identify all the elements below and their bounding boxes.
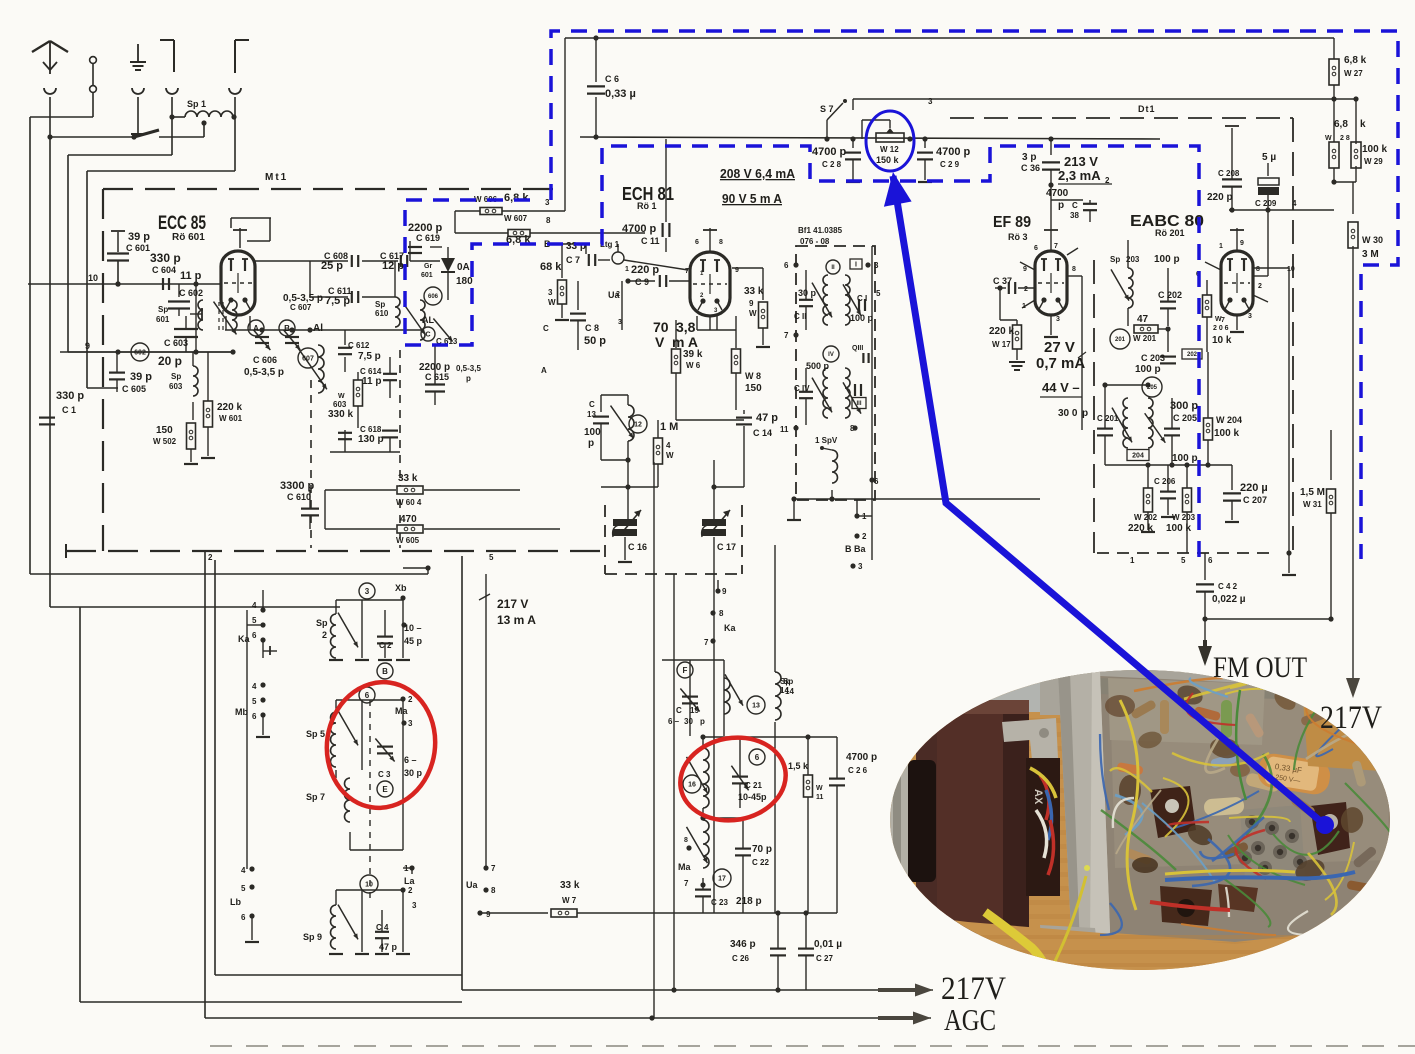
svg-text:4: 4 <box>241 866 246 875</box>
svg-text:6: 6 <box>784 261 789 270</box>
svg-text:150 k: 150 k <box>876 155 900 165</box>
svg-text:Sp: Sp <box>375 300 385 309</box>
svg-text:C 2 6: C 2 6 <box>848 766 868 775</box>
svg-text:220 k: 220 k <box>989 326 1014 337</box>
svg-text:601: 601 <box>156 315 170 324</box>
svg-text:C 6: C 6 <box>605 74 619 84</box>
svg-text:C 2 9: C 2 9 <box>940 160 960 169</box>
svg-text:Sp 1: Sp 1 <box>187 99 206 109</box>
svg-text:Xb: Xb <box>395 583 407 593</box>
svg-text:p: p <box>700 717 705 726</box>
svg-text:130 p: 130 p <box>358 434 384 445</box>
svg-text:500 p: 500 p <box>806 361 830 371</box>
svg-text:W 27: W 27 <box>1344 69 1363 78</box>
svg-text:5: 5 <box>1181 556 1186 565</box>
svg-text:204: 204 <box>1132 453 1144 460</box>
svg-text:0,5-3,5 p: 0,5-3,5 p <box>244 367 284 378</box>
svg-text:W 7: W 7 <box>562 896 577 905</box>
svg-text:Sp: Sp <box>316 618 328 628</box>
svg-text:Lb: Lb <box>230 897 241 907</box>
svg-text:220 p: 220 p <box>1207 192 1233 203</box>
svg-text:603: 603 <box>333 400 347 409</box>
svg-text:3 p: 3 p <box>1022 152 1036 163</box>
svg-text:6: 6 <box>252 631 257 640</box>
svg-text:Gr: Gr <box>424 263 432 270</box>
svg-text:16: 16 <box>688 782 696 789</box>
svg-text:IV: IV <box>828 352 834 358</box>
svg-text:C 619: C 619 <box>416 233 440 243</box>
svg-text:0,022 µ: 0,022 µ <box>1212 594 1246 605</box>
svg-text:F: F <box>683 666 688 675</box>
svg-text:100 k: 100 k <box>1362 144 1387 155</box>
svg-text:C 7: C 7 <box>566 255 580 265</box>
svg-text:13: 13 <box>752 703 760 710</box>
svg-text:100 p: 100 p <box>1172 453 1198 464</box>
svg-text:1: 1 <box>1219 243 1223 250</box>
svg-text:220 p: 220 p <box>631 264 659 276</box>
svg-text:6 –: 6 – <box>668 717 680 726</box>
svg-text:W 6: W 6 <box>686 361 701 370</box>
svg-text:W 8: W 8 <box>745 371 761 381</box>
svg-text:076 - 08: 076 - 08 <box>800 237 830 246</box>
svg-text:p: p <box>466 374 471 383</box>
svg-text:La: La <box>404 876 415 886</box>
svg-text:C 606: C 606 <box>253 355 277 365</box>
svg-text:3300 p: 3300 p <box>280 480 315 492</box>
svg-text:W 607: W 607 <box>504 214 528 223</box>
svg-text:3: 3 <box>1248 313 1252 320</box>
svg-text:3: 3 <box>928 97 933 106</box>
svg-text:C 202: C 202 <box>1158 290 1182 300</box>
svg-text:100 k: 100 k <box>1166 523 1191 534</box>
svg-text:1 SpV: 1 SpV <box>815 436 838 445</box>
svg-text:C 11: C 11 <box>641 236 660 246</box>
svg-text:17: 17 <box>718 876 726 883</box>
svg-text:I: I <box>855 262 857 269</box>
svg-text:W 60 4: W 60 4 <box>396 498 422 507</box>
svg-text:C 23: C 23 <box>711 898 728 907</box>
svg-text:C: C <box>543 324 549 333</box>
svg-text:218 p: 218 p <box>736 896 762 907</box>
svg-text:Ka: Ka <box>238 634 250 644</box>
svg-text:3: 3 <box>874 261 879 270</box>
svg-text:C 22: C 22 <box>752 858 769 867</box>
svg-text:4700 p: 4700 p <box>622 223 657 235</box>
svg-text:3: 3 <box>618 319 622 326</box>
svg-text:217V: 217V <box>1320 700 1382 736</box>
svg-text:C II: C II <box>794 312 806 321</box>
svg-text:C 14: C 14 <box>753 428 772 438</box>
svg-text:Dt1: Dt1 <box>1138 104 1156 114</box>
svg-text:B: B <box>284 324 290 333</box>
svg-text:6: 6 <box>755 753 760 762</box>
svg-text:5: 5 <box>241 884 246 893</box>
svg-text:C 605: C 605 <box>122 384 146 394</box>
svg-text:50 p: 50 p <box>584 335 606 347</box>
svg-text:5: 5 <box>252 697 257 706</box>
svg-text:Ua: Ua <box>466 880 478 890</box>
svg-text:346 p: 346 p <box>730 939 756 950</box>
svg-text:3: 3 <box>858 562 863 571</box>
svg-text:30 0: 30 0 <box>1058 408 1078 419</box>
svg-text:C 602: C 602 <box>179 288 203 298</box>
svg-text:W 601: W 601 <box>219 414 243 423</box>
svg-text:6,8: 6,8 <box>1334 119 1348 130</box>
svg-text:3: 3 <box>408 719 413 728</box>
svg-text:V: V <box>655 334 665 350</box>
svg-text:4700 p: 4700 p <box>846 752 877 763</box>
svg-text:6: 6 <box>695 239 699 246</box>
svg-text:C 4: C 4 <box>376 923 389 932</box>
svg-text:5: 5 <box>876 289 881 298</box>
svg-text:601: 601 <box>421 272 433 279</box>
svg-text:3: 3 <box>365 587 370 596</box>
svg-text:2,3 mA: 2,3 mA <box>1058 168 1101 183</box>
svg-text:68 k: 68 k <box>540 261 562 273</box>
svg-text:ECC 85: ECC 85 <box>158 213 206 234</box>
svg-text:44 V –: 44 V – <box>1042 380 1080 395</box>
svg-text:2: 2 <box>208 553 213 562</box>
svg-text:38: 38 <box>1070 211 1079 220</box>
svg-text:0,5-3,5: 0,5-3,5 <box>456 364 481 373</box>
svg-text:1: 1 <box>1022 303 1026 310</box>
svg-text:7: 7 <box>685 268 689 275</box>
svg-text:3 M: 3 M <box>1362 249 1379 260</box>
svg-text:C 9: C 9 <box>635 277 649 287</box>
svg-text:2: 2 <box>862 532 867 541</box>
svg-text:p: p <box>1082 408 1088 419</box>
svg-text:220 k: 220 k <box>217 402 242 413</box>
svg-text:p: p <box>1058 200 1064 211</box>
svg-text:W 202: W 202 <box>1134 513 1158 522</box>
svg-text:20 p: 20 p <box>158 354 182 368</box>
svg-text:4700: 4700 <box>1046 188 1069 199</box>
svg-text:C 205: C 205 <box>1173 413 1197 423</box>
svg-text:C 614: C 614 <box>360 367 382 376</box>
svg-text:330 p: 330 p <box>150 251 181 265</box>
svg-text:E: E <box>382 785 388 794</box>
svg-text:7: 7 <box>1221 317 1225 324</box>
svg-text:C 612: C 612 <box>348 341 370 350</box>
svg-text:W: W <box>749 309 757 318</box>
svg-text:EF 89: EF 89 <box>993 214 1031 231</box>
svg-text:3,8: 3,8 <box>676 319 696 335</box>
svg-text:W 17: W 17 <box>992 340 1011 349</box>
svg-text:607: 607 <box>302 356 314 363</box>
svg-text:220 µ: 220 µ <box>1240 482 1268 494</box>
svg-text:2: 2 <box>1024 286 1028 293</box>
svg-text:220 k: 220 k <box>1128 523 1153 534</box>
svg-text:10 –: 10 – <box>404 623 422 633</box>
svg-text:2: 2 <box>1258 283 1262 290</box>
svg-text:8: 8 <box>1072 266 1076 273</box>
svg-text:A: A <box>253 324 259 333</box>
svg-text:9: 9 <box>486 910 491 919</box>
svg-text:C 2: C 2 <box>379 641 392 650</box>
svg-text:4700 p: 4700 p <box>936 146 971 158</box>
svg-text:9: 9 <box>1023 266 1027 273</box>
svg-text:100 p: 100 p <box>850 313 874 323</box>
svg-text:100 p: 100 p <box>1154 254 1180 265</box>
svg-text:C 16: C 16 <box>628 542 647 552</box>
svg-text:7: 7 <box>704 638 709 647</box>
svg-text:47: 47 <box>1137 314 1149 325</box>
svg-text:100: 100 <box>584 427 601 438</box>
svg-text:C 603: C 603 <box>164 338 188 348</box>
svg-text:k: k <box>1360 119 1366 130</box>
svg-text:m A: m A <box>672 334 698 350</box>
svg-text:C 607: C 607 <box>290 303 312 312</box>
svg-text:5: 5 <box>252 616 257 625</box>
svg-text:C 3: C 3 <box>378 770 391 779</box>
svg-text:33 k: 33 k <box>744 286 764 297</box>
svg-text:7: 7 <box>684 879 689 888</box>
svg-text:6: 6 <box>874 477 879 486</box>
svg-text:Ka: Ka <box>724 623 736 633</box>
svg-text:213 V: 213 V <box>1064 154 1098 169</box>
svg-text:II: II <box>831 265 835 271</box>
svg-text:470: 470 <box>400 514 417 525</box>
svg-text:1,5 M: 1,5 M <box>1300 487 1325 498</box>
svg-text:C 26: C 26 <box>732 954 749 963</box>
svg-text:0,01 µ: 0,01 µ <box>814 939 842 950</box>
svg-text:1 M: 1 M <box>660 421 678 433</box>
svg-text:4: 4 <box>252 601 257 610</box>
svg-text:6: 6 <box>365 691 370 700</box>
svg-text:W 502: W 502 <box>153 437 177 446</box>
svg-text:C: C <box>1072 201 1078 210</box>
svg-text:III: III <box>856 401 861 407</box>
svg-text:W 201: W 201 <box>1133 334 1157 343</box>
svg-text:100 k: 100 k <box>1214 428 1239 439</box>
svg-text:W 203: W 203 <box>1172 513 1196 522</box>
svg-text:150: 150 <box>745 383 762 394</box>
svg-text:C 615: C 615 <box>425 372 449 382</box>
svg-text:205: 205 <box>1147 385 1158 391</box>
svg-text:C: C <box>425 332 430 339</box>
svg-text:2: 2 <box>616 291 620 298</box>
svg-text:39 p: 39 p <box>128 231 150 243</box>
svg-text:70: 70 <box>653 319 669 335</box>
svg-text:30 p: 30 p <box>798 288 817 298</box>
svg-text:4: 4 <box>252 682 257 691</box>
svg-text:70 p: 70 p <box>752 844 772 855</box>
svg-text:A: A <box>541 366 547 375</box>
svg-text:C 4 2: C 4 2 <box>1218 582 1238 591</box>
svg-text:6: 6 <box>241 913 246 922</box>
svg-text:W 30: W 30 <box>1362 235 1383 245</box>
svg-text:30: 30 <box>684 717 693 726</box>
svg-text:C I: C I <box>857 294 867 303</box>
svg-text:W: W <box>666 451 674 460</box>
svg-text:10: 10 <box>365 882 373 889</box>
svg-text:C 207: C 207 <box>1243 495 1267 505</box>
svg-text:AX: AX <box>1032 789 1044 805</box>
svg-text:C 2 8: C 2 8 <box>822 160 842 169</box>
svg-text:202: 202 <box>1187 352 1198 358</box>
svg-text:S 7: S 7 <box>820 104 834 114</box>
svg-text:W 29: W 29 <box>1364 157 1383 166</box>
svg-text:W: W <box>548 298 556 307</box>
svg-text:10: 10 <box>88 273 98 283</box>
svg-text:W: W <box>816 785 823 792</box>
svg-text:C: C <box>676 706 682 715</box>
svg-text:Al: Al <box>313 323 323 334</box>
svg-text:0A: 0A <box>457 262 470 273</box>
svg-text:6,8 k: 6,8 k <box>504 192 529 204</box>
svg-text:Sp: Sp <box>783 677 793 686</box>
svg-text:12: 12 <box>634 422 642 429</box>
svg-text:8: 8 <box>1256 266 1260 273</box>
svg-text:27 V: 27 V <box>1044 339 1075 356</box>
svg-text:C 1: C 1 <box>62 405 76 415</box>
svg-text:Sp 7: Sp 7 <box>306 792 325 802</box>
svg-text:Rö 601: Rö 601 <box>172 232 205 243</box>
svg-text:0,33 µ: 0,33 µ <box>605 88 636 100</box>
svg-text:3: 3 <box>1056 316 1060 323</box>
svg-text:2: 2 <box>322 630 327 640</box>
svg-text:11: 11 <box>780 425 789 434</box>
svg-text:6 –: 6 – <box>404 755 417 765</box>
svg-text:10-45p: 10-45p <box>738 792 767 802</box>
svg-text:201: 201 <box>1115 337 1126 343</box>
svg-text:C 201: C 201 <box>1097 414 1119 423</box>
svg-text:45 p: 45 p <box>404 636 423 646</box>
svg-text:C 8: C 8 <box>585 323 599 333</box>
svg-text:2 0 6: 2 0 6 <box>1213 325 1229 332</box>
svg-text:AGC: AGC <box>944 1002 996 1037</box>
svg-text:Rö 3: Rö 3 <box>1008 232 1028 242</box>
svg-text:C 604: C 604 <box>152 265 176 275</box>
svg-text:150: 150 <box>156 425 173 436</box>
svg-text:8: 8 <box>491 886 496 895</box>
svg-text:9: 9 <box>735 267 739 274</box>
svg-text:13 m A: 13 m A <box>497 613 536 627</box>
svg-text:11 p: 11 p <box>180 270 202 282</box>
svg-text:9: 9 <box>85 341 90 351</box>
svg-text:90 V 5 m A: 90 V 5 m A <box>722 191 783 206</box>
svg-text:6,8 k: 6,8 k <box>1344 55 1367 66</box>
svg-text:2: 2 <box>408 886 413 895</box>
svg-text:C 203: C 203 <box>1141 353 1165 363</box>
svg-text:QIII: QIII <box>852 345 863 352</box>
svg-text:C: C <box>589 400 595 409</box>
svg-text:7: 7 <box>784 331 789 340</box>
svg-text:11: 11 <box>816 794 824 801</box>
svg-text:33 k: 33 k <box>398 473 418 484</box>
svg-text:14: 14 <box>785 687 794 696</box>
svg-text:8: 8 <box>719 239 723 246</box>
svg-text:3: 3 <box>548 288 553 297</box>
svg-text:8: 8 <box>684 837 688 844</box>
svg-text:300 p: 300 p <box>1170 400 1198 412</box>
svg-text:C 610: C 610 <box>287 492 311 502</box>
svg-text:C 37: C 37 <box>993 276 1012 286</box>
svg-text:6: 6 <box>1034 245 1038 252</box>
svg-text:30 p: 30 p <box>404 768 423 778</box>
svg-text:180: 180 <box>456 276 473 287</box>
svg-text:6: 6 <box>252 712 257 721</box>
svg-text:330 k: 330 k <box>328 409 353 420</box>
svg-text:C IV: C IV <box>794 384 810 393</box>
svg-text:330 p: 330 p <box>56 390 84 402</box>
svg-text:9: 9 <box>1240 240 1244 247</box>
svg-text:Sp 9: Sp 9 <box>303 932 322 942</box>
svg-text:W 605: W 605 <box>396 536 420 545</box>
svg-text:3: 3 <box>412 901 417 910</box>
svg-text:2: 2 <box>408 695 413 704</box>
svg-text:B Ba: B Ba <box>845 544 866 554</box>
svg-text:7,5 p: 7,5 p <box>325 295 350 307</box>
svg-text:FM OUT: FM OUT <box>1213 651 1307 684</box>
svg-text:Sp 5: Sp 5 <box>306 729 325 739</box>
svg-text:C 21: C 21 <box>745 781 762 790</box>
svg-text:7: 7 <box>1054 243 1058 250</box>
svg-text:12 p: 12 p <box>382 260 404 272</box>
svg-text:2 8: 2 8 <box>1340 135 1350 142</box>
svg-text:610: 610 <box>375 309 389 318</box>
svg-text:5: 5 <box>489 553 494 562</box>
svg-text:B: B <box>382 667 388 676</box>
svg-text:13: 13 <box>587 410 596 419</box>
svg-text:5 µ: 5 µ <box>1262 152 1276 163</box>
svg-text:W 204: W 204 <box>1216 415 1242 425</box>
svg-text:C 206: C 206 <box>1154 477 1176 486</box>
svg-text:9: 9 <box>722 587 727 596</box>
svg-text:8: 8 <box>719 609 724 618</box>
svg-text:1,5 k: 1,5 k <box>788 761 809 771</box>
svg-text:Ma: Ma <box>678 862 691 872</box>
svg-text:7,5 p: 7,5 p <box>358 351 381 362</box>
svg-text:39 p: 39 p <box>130 371 152 383</box>
svg-text:C 209: C 209 <box>1255 199 1277 208</box>
svg-text:W: W <box>338 393 345 400</box>
svg-text:W 12: W 12 <box>880 145 899 154</box>
svg-text:Ma: Ma <box>395 706 408 716</box>
svg-text:25 p: 25 p <box>321 260 343 272</box>
svg-text:4: 4 <box>666 441 671 450</box>
svg-text:Sp: Sp <box>171 372 181 381</box>
svg-text:W: W <box>1325 135 1332 142</box>
svg-text:602: 602 <box>134 350 146 357</box>
svg-text:Mt1: Mt1 <box>265 172 288 183</box>
svg-text:p: p <box>588 438 594 449</box>
svg-text:4700 p: 4700 p <box>812 146 847 158</box>
svg-text:AL: AL <box>422 315 434 325</box>
svg-text:W 31: W 31 <box>1303 500 1322 509</box>
svg-text:10: 10 <box>1287 266 1295 273</box>
svg-text:C 601: C 601 <box>126 243 150 253</box>
svg-text:33 k: 33 k <box>560 880 580 891</box>
svg-text:7: 7 <box>491 864 496 873</box>
svg-text:1: 1 <box>625 266 629 273</box>
svg-text:Sp: Sp <box>158 305 168 314</box>
svg-text:603: 603 <box>169 382 183 391</box>
svg-text:C 17: C 17 <box>717 542 736 552</box>
svg-text:C 618: C 618 <box>360 425 382 434</box>
svg-text:6: 6 <box>1208 556 1213 565</box>
svg-text:8: 8 <box>546 216 551 225</box>
svg-text:Rö 1: Rö 1 <box>637 201 657 211</box>
svg-text:39 k: 39 k <box>683 349 703 360</box>
svg-text:1: 1 <box>1130 556 1135 565</box>
svg-text:19: 19 <box>690 706 699 715</box>
svg-text:606: 606 <box>428 294 439 300</box>
svg-text:11 p: 11 p <box>362 376 381 387</box>
svg-text:C 208: C 208 <box>1218 169 1240 178</box>
svg-text:9: 9 <box>749 299 754 308</box>
svg-text:10 k: 10 k <box>1212 335 1232 346</box>
